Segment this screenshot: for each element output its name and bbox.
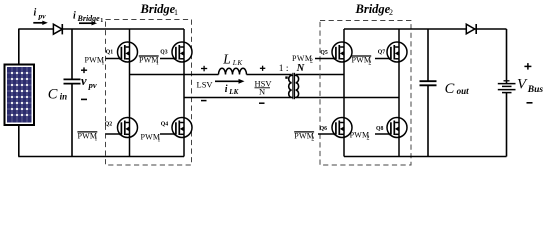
wire: bridge2 right leg top (398, 29, 400, 43)
label PWM1 (Q4 gate) (141, 132, 161, 143)
PV panel (5, 65, 35, 126)
svg-text:LK: LK (232, 59, 244, 67)
wire: bridge1 right leg bottom (183, 137, 185, 157)
label PWM1 (Q1 gate) (85, 56, 105, 67)
svg-text:out: out (457, 86, 470, 96)
svg-text:2: 2 (310, 59, 313, 65)
wire: bridge1 output A to inductor (130, 74, 219, 76)
svg-text:1: 1 (101, 61, 104, 67)
capacitor C_out (420, 81, 437, 85)
wire: top rail left section (18, 28, 184, 30)
wire: bottom rail left section (18, 156, 184, 158)
svg-text:C: C (48, 87, 58, 103)
svg-text:1: 1 (156, 61, 159, 67)
label C_in (48, 87, 67, 103)
wire: battery top lead (506, 29, 508, 84)
transistor Q3 (172, 42, 192, 62)
wire: Q2 gate lead (106, 133, 123, 135)
label - (LSV bottom) (201, 100, 207, 102)
svg-text:i: i (73, 11, 76, 22)
wire: C_in bottom leg (71, 84, 73, 157)
wire: bridge1 right leg top (183, 29, 185, 43)
wire: Q1 gate lead (106, 58, 123, 60)
label Bridge1 title (140, 2, 179, 17)
wire: bridge1 output B to transformer primary bottom (184, 97, 292, 99)
label i_pv with arrow (33, 8, 48, 25)
wire: bridge2 left leg mid (343, 62, 345, 119)
svg-text:i: i (34, 8, 37, 19)
svg-text:Bridge: Bridge (355, 2, 391, 16)
wire: PV bottom to bottom rail (18, 125, 20, 157)
wire: bridge1 left leg mid (Q1 source to Q2 drain) (129, 62, 131, 119)
wire: Q3 gate lead (160, 58, 177, 60)
label i_Bridge1 with arrow (73, 11, 103, 26)
svg-text:1: 1 (100, 18, 103, 24)
svg-text:Q4: Q4 (161, 121, 169, 127)
svg-text:LK: LK (228, 88, 239, 96)
wire: bridge2 left leg top (343, 29, 345, 43)
wire: C_in top leg (71, 29, 73, 79)
svg-text:Q5: Q5 (320, 50, 328, 56)
svg-text:2: 2 (311, 137, 314, 143)
svg-text:1: 1 (94, 137, 97, 143)
battery V_Bus (498, 81, 516, 93)
svg-text:2: 2 (367, 135, 370, 141)
label C_out (445, 81, 470, 97)
transformer T1 (285, 73, 298, 99)
svg-text:1: 1 (174, 8, 178, 17)
wire: battery bottom lead (506, 93, 508, 157)
wire: bridge2 right leg bottom (398, 137, 400, 157)
svg-text:Q6: Q6 (320, 126, 328, 132)
dashed box Bridge1 (106, 20, 192, 166)
capacitor C_in (64, 79, 81, 83)
label PWM2-bar (Q6 gate) (294, 132, 314, 143)
wire: C_out bottom leg (427, 85, 429, 156)
primary winding (289, 75, 292, 99)
wire: inductor to transformer primary top (247, 74, 292, 76)
label HSV/N fraction (255, 79, 273, 97)
svg-text:1 :: 1 : (279, 64, 289, 74)
transistor Q8 (387, 117, 407, 137)
wire: Q6 gate lead (318, 133, 337, 135)
svg-text:Bridge: Bridge (77, 14, 101, 23)
label V_Bus (517, 76, 543, 95)
wire: C_out top leg (427, 29, 429, 81)
svg-text:Q1: Q1 (106, 49, 114, 55)
svg-text:2: 2 (389, 8, 393, 17)
svg-text:V: V (517, 76, 528, 92)
svg-text:Bus: Bus (527, 85, 544, 95)
svg-text:i: i (225, 84, 228, 95)
core lines (292, 73, 294, 99)
wire: bridge1 left leg top (rail to Q1 drain) (129, 29, 131, 43)
wire: Q4 gate lead (160, 133, 177, 135)
dashed box Bridge2 (320, 21, 411, 166)
svg-text:C: C (445, 81, 455, 97)
wire: transformer secondary bottom to bridge2 right leg (296, 97, 399, 99)
transistor Q5 (332, 42, 352, 62)
svg-text:Q8: Q8 (376, 126, 384, 132)
transistor Q7 (387, 42, 407, 62)
svg-text:in: in (60, 92, 68, 102)
transistor Q4 (172, 117, 192, 137)
label - (HSV bottom) (259, 102, 265, 104)
label + (battery) (524, 65, 531, 67)
diode D2 output diode (466, 24, 476, 34)
svg-text:v: v (81, 74, 87, 88)
svg-text:LSV: LSV (197, 80, 214, 90)
label 1 : N (279, 63, 305, 74)
wire: left vertical from PV top (18, 29, 20, 65)
wire: bottom rail right section (344, 156, 507, 158)
arrow i_LK (215, 79, 245, 96)
secondary winding (296, 75, 299, 99)
label - (battery) (527, 102, 533, 104)
wire: Q7 gate lead (375, 58, 392, 60)
svg-text:Q3: Q3 (160, 50, 168, 56)
wire: transformer secondary top to bridge2 left leg (296, 74, 344, 76)
svg-text:pv: pv (88, 80, 97, 90)
svg-text:pv: pv (38, 11, 47, 20)
wire: bridge2 left leg bottom (343, 137, 345, 157)
svg-text:N: N (296, 63, 305, 74)
inductor L_LK (219, 68, 247, 74)
label PWM2-bar (Q7 gate) (351, 56, 371, 67)
svg-text:L: L (222, 51, 231, 66)
svg-text:2: 2 (368, 61, 371, 67)
label PWM1-bar (Q2 gate) (77, 132, 97, 143)
svg-text:Q2: Q2 (105, 121, 113, 127)
label Bridge2 title (355, 2, 394, 17)
label PWM2 (Q5 gate) (292, 54, 313, 65)
label + (HSV top) (260, 67, 265, 69)
wire: Q8 gate lead (375, 133, 392, 135)
label L_LK (222, 51, 243, 66)
label v_pv with + and - (81, 67, 97, 99)
wire: bridge1 right leg mid (183, 62, 185, 119)
label PWM1-bar (Q3 gate) (139, 56, 159, 67)
wire: top rail right section (344, 28, 507, 30)
svg-text:Q7: Q7 (378, 50, 386, 56)
svg-text:N: N (259, 87, 265, 97)
wire: bridge2 right leg mid (398, 62, 400, 119)
wire: bridge1 left leg bottom (Q2 source to rail) (129, 137, 131, 157)
transistor Q1 (118, 42, 138, 62)
svg-text:Bridge: Bridge (140, 2, 176, 16)
polarity dot primary (285, 76, 287, 78)
transistor Q2 (118, 117, 138, 137)
label PWM2 (Q8 gate) (350, 130, 370, 141)
label + (LSV top) (201, 68, 207, 70)
diode D1 input blocking diode (53, 24, 62, 34)
svg-text:1: 1 (157, 137, 160, 143)
wire: Q5 gate lead (315, 58, 337, 60)
transistor Q6 (332, 117, 352, 137)
